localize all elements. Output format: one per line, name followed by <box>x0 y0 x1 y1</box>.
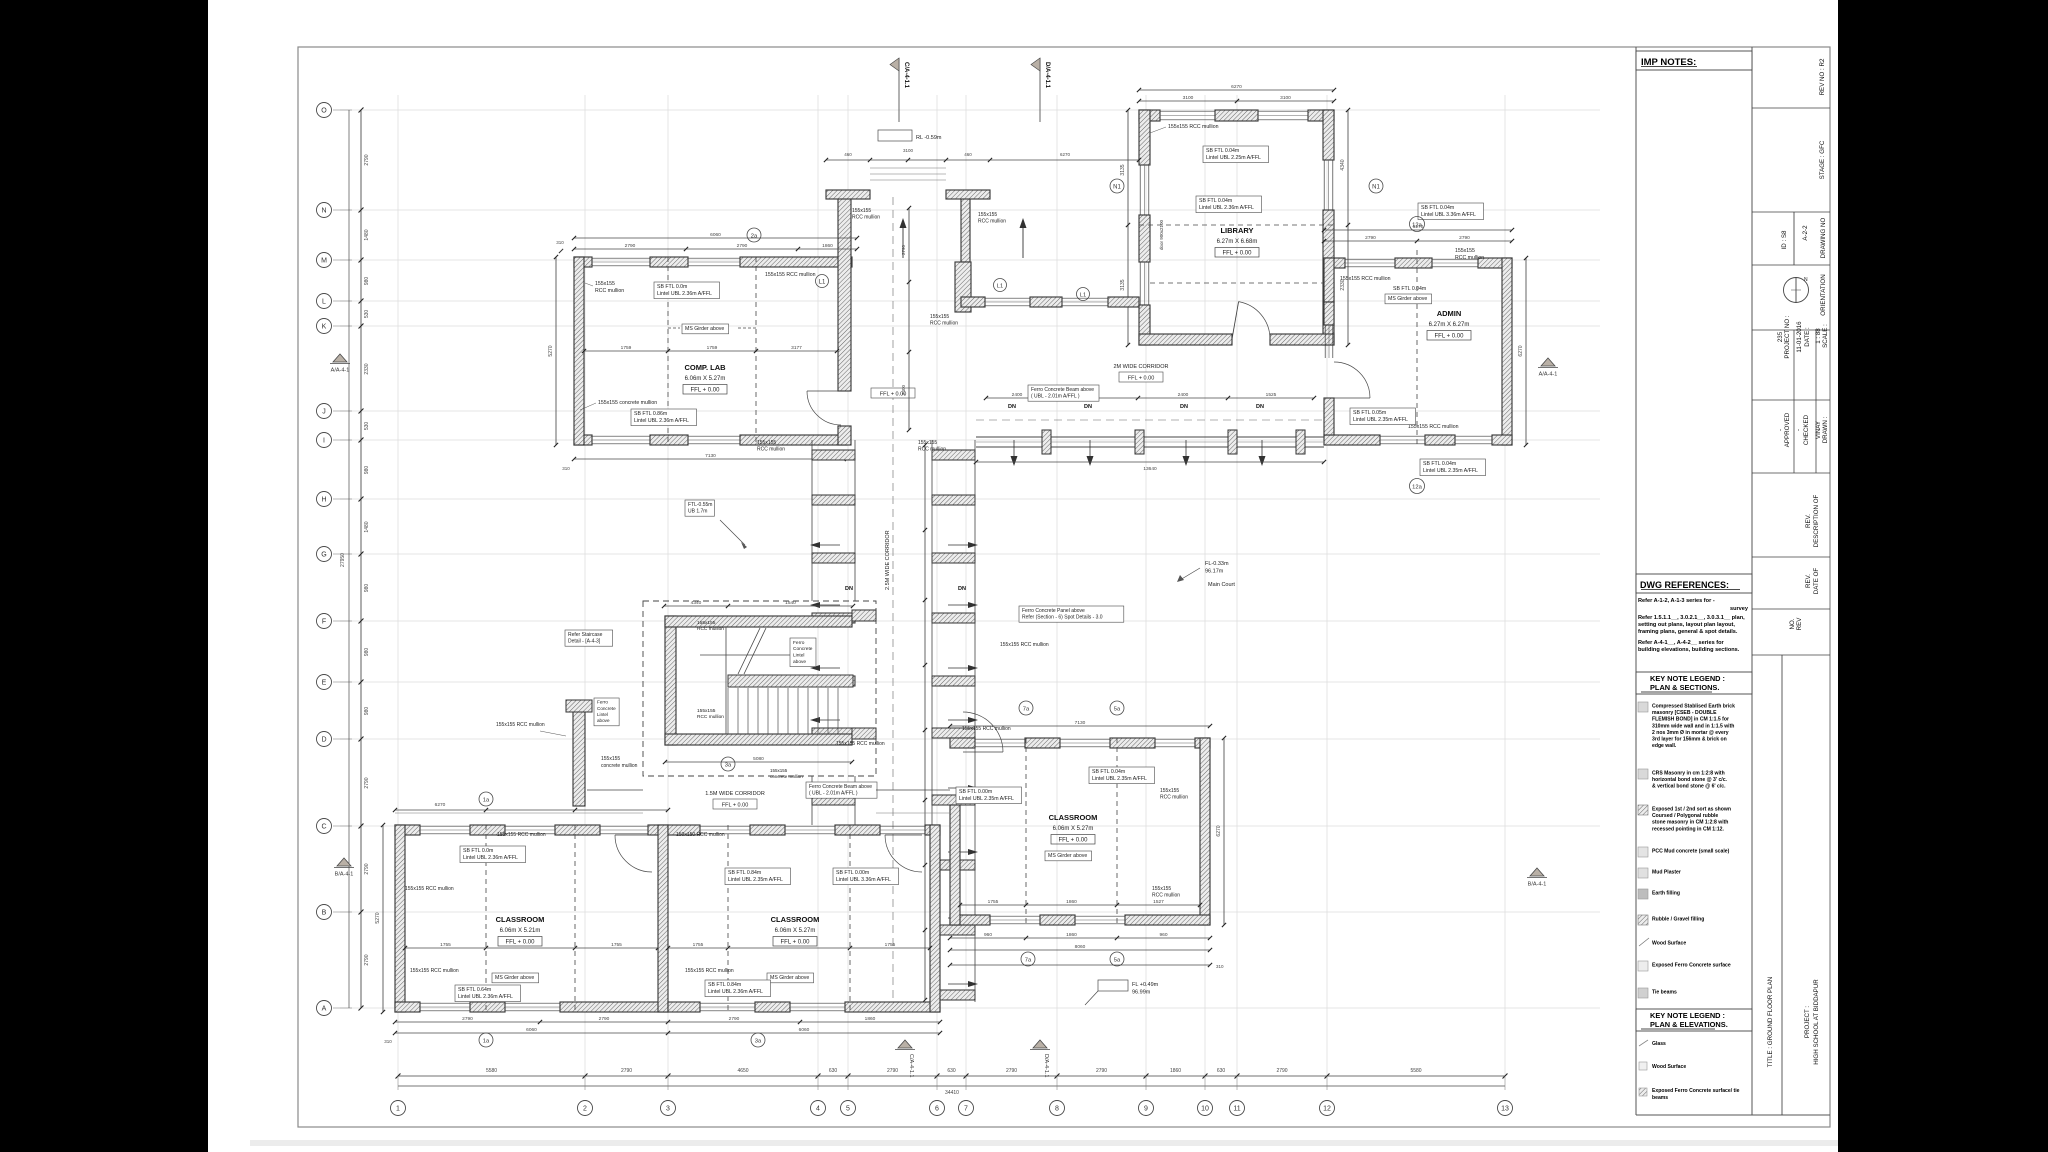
svg-text:310: 310 <box>562 466 570 471</box>
L1 bubble west <box>816 275 829 288</box>
svg-text:COMP. LAB: COMP. LAB <box>684 363 726 372</box>
svg-text:155x155: 155x155 <box>918 440 937 446</box>
svg-text:FFL + 0.00: FFL + 0.00 <box>1435 334 1465 340</box>
classroom SW walls <box>395 825 668 1012</box>
staircase bottom dims <box>665 761 852 763</box>
svg-text:FFL + 0.00: FFL + 0.00 <box>781 940 811 946</box>
staircase break line diagonal <box>738 628 760 674</box>
svg-text:N1: N1 <box>1372 185 1380 191</box>
2M corridor lower wall <box>976 436 1324 438</box>
svg-text:Lintel UBL 2.36m A/FFL: Lintel UBL 2.36m A/FFL <box>1199 205 1254 211</box>
scan artifact gray band bottom <box>250 1140 1838 1146</box>
svg-text:DN: DN <box>1008 404 1016 410</box>
library right dim chain <box>1347 110 1349 345</box>
svg-text:155x155: 155x155 <box>697 620 716 626</box>
svg-text:& vertical bond stone @ 6' c/c: & vertical bond stone @ 6' c/c. <box>1652 784 1726 790</box>
svg-text:Lintel UBL 2.35m A/FFL: Lintel UBL 2.35m A/FFL <box>959 796 1014 802</box>
svg-text:CHECKED: CHECKED <box>1803 414 1810 445</box>
svg-text:3a: 3a <box>725 762 732 768</box>
svg-text:Main Court: Main Court <box>1208 582 1235 588</box>
library label lintel 1 <box>1203 146 1268 163</box>
staircase right stubs <box>852 610 876 621</box>
svg-text:FFL + 0.00: FFL + 0.00 <box>1128 376 1155 382</box>
legend rubble masonry <box>1638 805 1648 815</box>
svg-text:155x155: 155x155 <box>770 768 788 773</box>
svg-text:530: 530 <box>364 310 370 319</box>
svg-text:stone masonry in CM 1:2:8 with: stone masonry in CM 1:2:8 with <box>1652 820 1728 826</box>
2a bubble top <box>747 228 761 242</box>
svg-text:6.06m X 5.21m: 6.06m X 5.21m <box>500 928 541 934</box>
svg-text:Lintel: Lintel <box>793 653 804 659</box>
svg-text:1755: 1755 <box>885 942 896 948</box>
svg-text:155x155: 155x155 <box>852 208 871 214</box>
svg-text:REV.: REV. <box>1805 574 1812 588</box>
svg-text:Ferro Concrete Beam above: Ferro Concrete Beam above <box>809 784 872 790</box>
room ADMIN walls <box>1324 258 1512 445</box>
classroom SE bottom dims <box>950 937 1210 939</box>
section marker C/A-4-1.1 bottom <box>898 1040 912 1048</box>
wall between classrooms SW/S <box>658 825 668 1012</box>
svg-text:155x155: 155x155 <box>595 281 615 287</box>
svg-text:M: M <box>321 257 327 264</box>
corridor FFL label <box>871 388 915 398</box>
svg-text:7130: 7130 <box>1075 720 1086 726</box>
staircase landing hatched band <box>728 675 853 687</box>
svg-text:L1: L1 <box>997 283 1003 289</box>
svg-text:34410: 34410 <box>945 1090 959 1096</box>
svg-text:F: F <box>322 618 326 625</box>
svg-text:SB FTL 0.64m: SB FTL 0.64m <box>458 987 491 993</box>
svg-text:12: 12 <box>1323 1105 1331 1112</box>
svg-text:4340: 4340 <box>1340 159 1346 170</box>
legend CRS masonry <box>1638 769 1648 779</box>
svg-text:DN: DN <box>958 586 966 592</box>
classroom SE interior dim <box>960 904 1200 906</box>
svg-text:1525: 1525 <box>1266 392 1277 398</box>
svg-text:RCC mullion: RCC mullion <box>852 215 880 221</box>
svg-text:concrete mullion: concrete mullion <box>601 763 638 769</box>
svg-text:6270: 6270 <box>1231 84 1242 90</box>
room LIBRARY walls <box>1139 110 1334 345</box>
legend mud plaster <box>1638 868 1648 878</box>
svg-text:L1: L1 <box>819 280 826 286</box>
svg-text:CLASSROOM: CLASSROOM <box>496 915 545 924</box>
svg-text:G: G <box>321 551 326 558</box>
svg-text:155x155 RCC mullion: 155x155 RCC mullion <box>1408 424 1459 430</box>
svg-text:N: N <box>1804 277 1808 283</box>
svg-text:Ferro: Ferro <box>597 700 608 705</box>
legend rubble gravel filling <box>1638 915 1648 925</box>
svg-text:FTL-0.55m: FTL-0.55m <box>688 502 712 508</box>
admin bottom labels <box>1420 459 1485 476</box>
svg-text:1527: 1527 <box>1153 899 1164 905</box>
svg-text:MS Girder above: MS Girder above <box>1388 296 1427 302</box>
svg-text:B: B <box>322 909 327 916</box>
section marker A/A-4-1 right <box>1541 358 1555 366</box>
1.5M corridor top edge lines <box>587 789 643 791</box>
corridor entrance stubs top <box>826 190 870 199</box>
door COMP. LAB <box>807 391 841 425</box>
KEY NOTE LEGEND sections header <box>1636 672 1752 694</box>
classroom SE top dim <box>950 725 1210 727</box>
svg-text:2790: 2790 <box>625 243 636 249</box>
black bar left <box>0 0 208 1152</box>
svg-text:KEY NOTE LEGEND :: KEY NOTE LEGEND : <box>1650 1011 1725 1020</box>
svg-text:1755: 1755 <box>440 942 451 948</box>
svg-text:Wood Surface: Wood Surface <box>1652 941 1686 947</box>
svg-text:setting out plans, layout plan: setting out plans, layout plan layout, <box>1638 622 1735 628</box>
svg-text:Mud Plaster: Mud Plaster <box>1652 870 1681 876</box>
legend2 exposed ferro <box>1639 1088 1647 1096</box>
svg-text:Rubble / Gravel filling: Rubble / Gravel filling <box>1652 917 1704 923</box>
left vertical dimension chain <box>340 108 370 1011</box>
2M corridor down arrows <box>1013 440 1015 462</box>
svg-text:survey: survey <box>1730 606 1749 612</box>
svg-text:2790: 2790 <box>1459 235 1470 241</box>
svg-text:FFL + 0.00: FFL + 0.00 <box>1223 251 1253 257</box>
svg-text:SB FTL 0.04m: SB FTL 0.04m <box>1206 148 1239 154</box>
1a bubble bottom <box>479 1033 493 1047</box>
svg-text:1755: 1755 <box>611 942 622 948</box>
svg-text:REV NO : R2: REV NO : R2 <box>1819 58 1826 95</box>
svg-text:1a: 1a <box>483 1038 490 1044</box>
svg-text:Refer (Section - 6) Spot Detai: Refer (Section - 6) Spot Details - 3.0 <box>1022 615 1103 621</box>
svg-text:SB FTL 0.04m: SB FTL 0.04m <box>1092 769 1125 775</box>
classroom SW interior dim <box>405 947 658 949</box>
ferro concrete beam above label stair <box>806 782 877 798</box>
svg-text:Lintel UBL 2.36m A/FFL: Lintel UBL 2.36m A/FFL <box>458 994 513 1000</box>
svg-text:Lintel UBL 2.35m A/FFL: Lintel UBL 2.35m A/FFL <box>1423 468 1478 474</box>
svg-text:MS Girder above: MS Girder above <box>1048 853 1087 859</box>
svg-text:Ferro Concrete Panel above: Ferro Concrete Panel above <box>1022 608 1085 614</box>
admin SB FTL label west <box>1350 408 1415 425</box>
svg-text:5270: 5270 <box>375 912 381 923</box>
door classroom SE <box>963 712 1003 752</box>
svg-text:N1: N1 <box>1113 185 1121 191</box>
svg-text:RCC mullion: RCC mullion <box>697 714 724 720</box>
svg-text:E: E <box>322 679 327 686</box>
svg-text:2790: 2790 <box>364 154 370 165</box>
svg-text:6.06m X 5.27m: 6.06m X 5.27m <box>685 376 726 382</box>
classroom SW left dim chain <box>382 825 384 1012</box>
5a bubble bottom <box>1110 952 1124 966</box>
svg-text:PLAN & SECTIONS.: PLAN & SECTIONS. <box>1650 683 1719 692</box>
svg-text:A-2-2: A-2-2 <box>1802 225 1809 241</box>
svg-text:SB FTL 0.00m: SB FTL 0.00m <box>959 789 992 795</box>
title block outer lines <box>1635 47 1637 1115</box>
COMP LAB left dim chain <box>555 257 557 445</box>
svg-text:A: A <box>322 1005 327 1012</box>
svg-text:DWG REFERENCES:: DWG REFERENCES: <box>1640 580 1729 590</box>
svg-text:2790: 2790 <box>1276 1068 1287 1074</box>
classroom S MS girder <box>767 973 814 983</box>
svg-text:L1: L1 <box>1080 292 1086 298</box>
svg-text:UB 1.7m: UB 1.7m <box>688 509 707 515</box>
svg-text:1.5M WIDE CORRIDOR: 1.5M WIDE CORRIDOR <box>705 791 765 797</box>
svg-text:A/A-4-1: A/A-4-1 <box>1539 372 1558 378</box>
svg-text:Ferro Concrete Beam above: Ferro Concrete Beam above <box>1031 387 1094 393</box>
svg-text:APPROVED: APPROVED <box>1784 412 1791 447</box>
classroom S dashed axes <box>727 825 729 1012</box>
5a bubble top <box>1110 701 1124 715</box>
svg-text:7130: 7130 <box>705 453 716 459</box>
7a bubble top <box>1019 701 1033 715</box>
svg-text:150x150 RCC mullion: 150x150 RCC mullion <box>676 832 725 838</box>
svg-text:ADMIN: ADMIN <box>1437 309 1462 318</box>
svg-text:155x155 RCC mullion: 155x155 RCC mullion <box>836 741 885 747</box>
svg-text:155x155: 155x155 <box>978 212 997 218</box>
svg-text:155x155 RCC mullion: 155x155 RCC mullion <box>1168 124 1219 130</box>
svg-text:Lintel UBL 2.35m A/FFL: Lintel UBL 2.35m A/FFL <box>1353 417 1408 423</box>
black bar left repaint <box>0 0 208 1152</box>
svg-text:Refer Staircase: Refer Staircase <box>568 632 603 638</box>
svg-text:155x155 RCC mullion: 155x155 RCC mullion <box>496 722 545 728</box>
svg-text:96.99m: 96.99m <box>1132 990 1151 996</box>
svg-text:Lintel UBL 2.36m A/FFL: Lintel UBL 2.36m A/FFL <box>708 989 763 995</box>
entrance steps <box>870 167 946 169</box>
svg-text:-: - <box>1795 429 1802 431</box>
svg-text:1755: 1755 <box>693 942 704 948</box>
FL -0.59m box top <box>878 130 912 141</box>
svg-text:2330: 2330 <box>364 363 370 374</box>
svg-text:ORIENTATION: ORIENTATION <box>1820 274 1827 315</box>
svg-text:Refer A-1-2, A-1-3 series for: Refer A-1-2, A-1-3 series for - <box>1638 598 1715 604</box>
svg-text:1480: 1480 <box>364 229 370 240</box>
svg-text:6060: 6060 <box>526 1027 537 1033</box>
svg-text:2790: 2790 <box>364 954 370 965</box>
classroom SW MS girder <box>492 973 539 983</box>
classroom SE dashed axes <box>1025 738 1027 925</box>
12a bubble top <box>1410 217 1425 232</box>
svg-text:6060: 6060 <box>799 1027 810 1033</box>
svg-text:FL +0.49m: FL +0.49m <box>1132 982 1159 988</box>
vertical dim chains beside corridor <box>908 208 910 430</box>
svg-text:MS Girder above: MS Girder above <box>685 326 724 332</box>
svg-text:C/A-4-1.1: C/A-4-1.1 <box>908 1054 914 1078</box>
svg-text:Earth filling: Earth filling <box>1652 891 1680 897</box>
svg-text:Exposed Ferro Concrete surface: Exposed Ferro Concrete surface/ tie <box>1652 1088 1740 1094</box>
svg-text:310mm wide wall and in 1:1.5 w: 310mm wide wall and in 1:1.5 with <box>1652 723 1734 729</box>
svg-text:Detail - [A-4-3]: Detail - [A-4-3] <box>568 639 601 645</box>
MS Girder above label <box>682 324 729 334</box>
svg-text:980: 980 <box>364 648 370 657</box>
svg-text:FFL + 0.00: FFL + 0.00 <box>691 388 721 394</box>
svg-text:2790: 2790 <box>1006 1068 1017 1074</box>
svg-text:980: 980 <box>364 707 370 716</box>
svg-text:horizontal bond stone @ 3' c/c: horizontal bond stone @ 3' c/c. <box>1652 777 1728 783</box>
2M corridor L1 bubble <box>994 279 1007 292</box>
2M corridor bottom dim <box>976 461 1324 463</box>
door classroom SW <box>615 835 652 872</box>
staircase stairwell edge line <box>725 627 727 734</box>
bottom dim chains classrooms <box>395 1021 940 1023</box>
legend exposed ferro concrete <box>1638 961 1648 971</box>
svg-text:DESCRIPTION OF: DESCRIPTION OF <box>1813 494 1820 547</box>
svg-text:PROJECT :: PROJECT : <box>1804 1006 1811 1038</box>
svg-text:155x155 RCC mullion: 155x155 RCC mullion <box>497 832 546 838</box>
svg-text:310: 310 <box>556 240 564 245</box>
svg-text:Lintel UBL 2.36m A/FFL: Lintel UBL 2.36m A/FFL <box>463 855 518 861</box>
svg-text:2M WIDE CORRIDOR: 2M WIDE CORRIDOR <box>1114 364 1169 370</box>
legend tie beams <box>1638 988 1648 998</box>
black bar right <box>1838 0 2048 1152</box>
svg-text:155x155 RCC mullion: 155x155 RCC mullion <box>962 726 1011 732</box>
ferro concrete panel label <box>1019 606 1124 622</box>
svg-text:DATE :: DATE : <box>1804 327 1811 347</box>
svg-text:155x155 RCC mullion: 155x155 RCC mullion <box>405 886 454 892</box>
svg-text:6060: 6060 <box>710 232 721 238</box>
svg-text:PCC Mud concrete (small scale): PCC Mud concrete (small scale) <box>1652 849 1730 855</box>
svg-text:RL -0.59m: RL -0.59m <box>916 135 942 141</box>
svg-text:REV: REV <box>1796 617 1803 631</box>
svg-text:2400: 2400 <box>1012 392 1023 398</box>
label SB FTL lintel top <box>654 282 719 299</box>
corridor upper right wall <box>961 197 970 262</box>
svg-text:NO.: NO. <box>1789 618 1796 629</box>
left grid letter bubbles <box>317 103 353 1016</box>
svg-text:3100: 3100 <box>1183 95 1194 101</box>
svg-text:155x155: 155x155 <box>697 708 716 714</box>
staircase dashed boundary <box>643 601 876 776</box>
svg-text:13640: 13640 <box>1143 466 1157 472</box>
classroom SE lintel labels <box>1089 767 1154 784</box>
bottom grid number bubbles <box>391 1101 1513 1116</box>
svg-text:SB FTL 0.04m: SB FTL 0.04m <box>1423 461 1456 467</box>
svg-text:2790: 2790 <box>462 1016 473 1022</box>
svg-text:7a: 7a <box>1023 706 1030 712</box>
ferro concrete lintel label west <box>594 698 619 726</box>
orientation north circle <box>1784 278 1809 303</box>
svg-text:beams: beams <box>1652 1095 1668 1101</box>
classroom SW lintel labels <box>460 846 525 863</box>
svg-text:D/A-4-1.1: D/A-4-1.1 <box>1044 62 1050 89</box>
COMP. LAB dashed axes <box>667 257 669 445</box>
svg-text:3a: 3a <box>755 1038 762 1044</box>
svg-text:above: above <box>597 718 610 723</box>
svg-text:1860: 1860 <box>1066 899 1077 905</box>
svg-text:I: I <box>323 437 325 444</box>
IMP NOTES header <box>1636 51 1752 70</box>
classroom S interior dim line <box>668 947 930 949</box>
svg-text:12a: 12a <box>1412 484 1422 490</box>
svg-text:27950: 27950 <box>340 553 346 567</box>
svg-text:2400: 2400 <box>901 384 906 395</box>
svg-text:6.06m X 5.27m: 6.06m X 5.27m <box>775 928 816 934</box>
svg-text:630: 630 <box>947 1068 956 1074</box>
svg-text:5580: 5580 <box>486 1068 497 1074</box>
svg-text:1 : 88: 1 : 88 <box>1815 328 1822 344</box>
svg-text:Coursed / Polygonal rubble: Coursed / Polygonal rubble <box>1652 813 1718 819</box>
svg-text:SB FTL 0.0m: SB FTL 0.0m <box>657 284 687 290</box>
svg-text:HIGH SCHOOL AT BIDDAPUR: HIGH SCHOOL AT BIDDAPUR <box>1813 979 1820 1065</box>
svg-text:Lintel UBL 3.36m A/FFL: Lintel UBL 3.36m A/FFL <box>836 877 891 883</box>
svg-text:RCC mullion: RCC mullion <box>1152 893 1180 899</box>
svg-text:KEY NOTE LEGEND :: KEY NOTE LEGEND : <box>1650 674 1725 683</box>
svg-text:3135: 3135 <box>1120 164 1126 175</box>
svg-text:530: 530 <box>364 422 370 431</box>
DWG REFERENCES header <box>1636 574 1752 593</box>
svg-text:DN: DN <box>1256 404 1264 410</box>
svg-text:2790: 2790 <box>901 244 906 255</box>
svg-text:1860: 1860 <box>822 243 833 249</box>
staircase treads lower flight <box>728 688 838 734</box>
svg-text:960: 960 <box>984 932 992 938</box>
section marker A/A-4-1 left <box>333 354 347 362</box>
library left dim chain <box>1127 110 1129 345</box>
svg-text:5270: 5270 <box>548 345 554 356</box>
svg-text:SB FTL 0.86m: SB FTL 0.86m <box>634 411 667 417</box>
svg-text:CLASSROOM: CLASSROOM <box>1049 813 1098 822</box>
svg-text:6: 6 <box>935 1105 939 1112</box>
svg-text:630: 630 <box>829 1068 838 1074</box>
svg-text:FLEMISH BOND] in CM 1:1.5 for: FLEMISH BOND] in CM 1:1.5 for <box>1652 717 1729 723</box>
svg-text:Lintel UBL 2.36m A/FFL: Lintel UBL 2.36m A/FFL <box>634 418 689 424</box>
staircase ferro concrete lintel label <box>790 638 816 667</box>
svg-text:12a: 12a <box>1412 222 1422 228</box>
cell DRAWN CHECKED APPROVED <box>1793 400 1795 473</box>
svg-text:H: H <box>321 496 326 503</box>
svg-text:460: 460 <box>844 152 852 157</box>
legend PCC <box>1638 847 1648 857</box>
N1 bubble right <box>1369 179 1383 193</box>
svg-text:PROJECT NO :: PROJECT NO : <box>1784 315 1791 358</box>
svg-text:Lintel: Lintel <box>597 712 608 717</box>
svg-text:7: 7 <box>964 1105 968 1112</box>
svg-text:2790: 2790 <box>1365 235 1376 241</box>
svg-text:TITLE : GROUND FLOOR PLAN: TITLE : GROUND FLOOR PLAN <box>1767 977 1774 1067</box>
svg-text:framing plans, general & spot: framing plans, general & spot details. <box>1638 629 1738 635</box>
1a bubble top <box>479 792 493 806</box>
KEY NOTE LEGEND elevations header <box>1636 1009 1752 1031</box>
svg-text:1540: 1540 <box>785 600 796 606</box>
svg-text:above: above <box>793 659 806 665</box>
svg-text:155x155 RCC mullion: 155x155 RCC mullion <box>765 272 816 278</box>
svg-text:CLASSROOM: CLASSROOM <box>771 915 820 924</box>
svg-text:DN: DN <box>1084 404 1092 410</box>
svg-text:FFL + 0.00: FFL + 0.00 <box>1059 838 1089 844</box>
svg-text:DN: DN <box>845 586 853 592</box>
svg-text:6.27m X 6.27m: 6.27m X 6.27m <box>1429 322 1470 328</box>
svg-text:MS Girder above: MS Girder above <box>495 975 534 981</box>
legend CSEB masonry <box>1638 702 1648 712</box>
svg-text:FL-0.33m: FL-0.33m <box>1205 561 1229 567</box>
bottom horizontal dimension chain <box>396 1068 1508 1096</box>
2M corridor dim row <box>986 397 1314 399</box>
svg-text:SB FTL 0.04m: SB FTL 0.04m <box>1393 286 1426 292</box>
svg-text:DATE OF: DATE OF <box>1813 568 1820 595</box>
svg-text:CRS Masonry in cm 1:2:8 with: CRS Masonry in cm 1:2:8 with <box>1652 771 1725 777</box>
corridor centerline dashed <box>892 197 894 1000</box>
svg-text:2790: 2790 <box>737 243 748 249</box>
svg-text:Lintel UBL 2.36m A/FFL: Lintel UBL 2.36m A/FFL <box>657 291 712 297</box>
svg-text:460: 460 <box>964 152 972 157</box>
2M corridor upper wall west part <box>961 297 985 307</box>
classroom SW top dims <box>395 809 668 811</box>
svg-text:Concrete: Concrete <box>597 706 616 711</box>
svg-text:2790: 2790 <box>887 1068 898 1074</box>
staircase refer label <box>565 630 613 646</box>
svg-text:2400: 2400 <box>1178 392 1189 398</box>
svg-text:96.17m: 96.17m <box>1205 569 1224 575</box>
svg-text:155x155: 155x155 <box>1152 886 1171 892</box>
svg-text:Lintel UBL 2.35m A/FFL: Lintel UBL 2.35m A/FFL <box>728 877 783 883</box>
svg-text:C/A-4-1.1: C/A-4-1.1 <box>903 62 909 89</box>
section marker C/A-4-1.1 top <box>898 58 900 122</box>
svg-text:155x155: 155x155 <box>930 314 949 320</box>
svg-text:B/A-4-1: B/A-4-1 <box>1528 882 1547 888</box>
svg-text:A/A-4-1: A/A-4-1 <box>331 368 350 374</box>
svg-text:2790: 2790 <box>364 777 370 788</box>
